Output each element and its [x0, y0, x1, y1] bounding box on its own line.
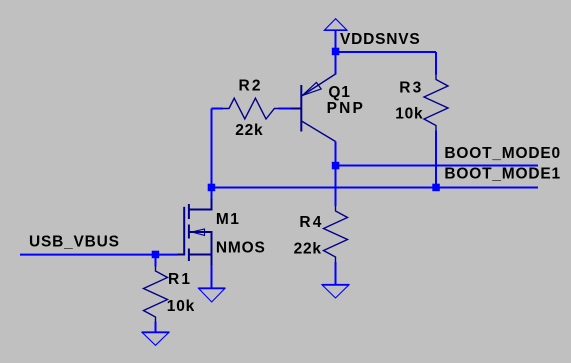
svg-text:BOOT_MODE0: BOOT_MODE0	[444, 145, 561, 162]
svg-text:10k: 10k	[167, 298, 195, 315]
svg-text:PNP: PNP	[327, 100, 365, 117]
svg-text:R4: R4	[299, 214, 323, 231]
svg-text:10k: 10k	[395, 105, 423, 122]
svg-text:22k: 22k	[294, 240, 322, 257]
svg-text:VDDSNVS: VDDSNVS	[340, 31, 421, 48]
svg-text:USB_VBUS: USB_VBUS	[29, 234, 120, 251]
svg-text:M1: M1	[216, 211, 241, 228]
svg-text:Q1: Q1	[328, 84, 350, 101]
svg-text:BOOT_MODE1: BOOT_MODE1	[444, 166, 561, 183]
svg-text:R1: R1	[168, 271, 192, 288]
svg-text:NMOS: NMOS	[216, 239, 266, 256]
svg-text:R2: R2	[239, 78, 263, 95]
svg-text:22k: 22k	[235, 122, 263, 139]
svg-text:R3: R3	[399, 80, 423, 97]
